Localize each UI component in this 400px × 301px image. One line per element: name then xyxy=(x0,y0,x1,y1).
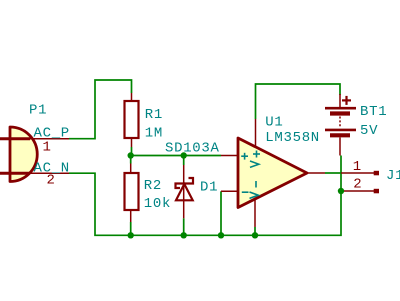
junction node R1/R2/SD103A xyxy=(128,152,134,158)
wire AC_P net: pin1 to R1 top xyxy=(69,80,132,139)
wire AC_N net: pin2 down to bottom bus xyxy=(69,156,341,236)
svg-text:LM358N: LM358N xyxy=(265,130,320,146)
BT1 cell2 short plate xyxy=(330,133,350,137)
U1 V+ power pin xyxy=(255,119,257,147)
svg-text:1M: 1M xyxy=(145,126,163,142)
svg-text:D1: D1 xyxy=(200,180,218,196)
diode D1 (Schottky) xyxy=(183,165,185,218)
wire D1 top stub xyxy=(183,158,185,165)
BT1 top pin xyxy=(339,94,341,107)
resistor R1 xyxy=(125,93,139,147)
wire R2 bottom stub xyxy=(130,222,132,235)
P1 prong pin AC_P xyxy=(0,137,30,140)
svg-text:AC_P: AC_P xyxy=(34,125,70,141)
svg-text:SD103A: SD103A xyxy=(165,141,220,157)
op-amp U1 body xyxy=(238,138,307,208)
BT1 cell1 long plate xyxy=(325,107,356,110)
U1 V- pin name (rotated) xyxy=(250,181,259,198)
wire D1 bottom stub xyxy=(183,218,185,235)
svg-text:R2: R2 xyxy=(144,178,162,194)
U1 V- power pin xyxy=(254,198,256,227)
svg-text:P1: P1 xyxy=(29,103,47,119)
wire V+ riser to battery xyxy=(256,84,341,119)
battery BT1 xyxy=(325,94,356,156)
svg-text:1: 1 xyxy=(353,159,362,175)
P1 pin 2 line xyxy=(30,172,69,174)
svg-text:5V: 5V xyxy=(360,123,378,139)
U1 V+ pin name (rotated) xyxy=(250,151,260,168)
svg-text:J1: J1 xyxy=(386,168,400,184)
U1 minus input marker xyxy=(242,191,249,193)
svg-text:U1: U1 xyxy=(265,114,283,130)
P1 prong pin AC_N xyxy=(0,172,30,175)
resistor R2 xyxy=(125,164,139,223)
svg-text:1: 1 xyxy=(43,140,52,156)
wire inverting input down xyxy=(220,191,222,235)
wire R2 top stub xyxy=(130,156,132,164)
BT1 bottom pin xyxy=(339,138,341,156)
BT1 dashed link xyxy=(339,117,341,129)
U1 plus input marker xyxy=(241,153,248,160)
P1 pin 1 line xyxy=(30,138,69,140)
BT1 plus sign xyxy=(342,99,351,101)
D1 pin vertical through symbol xyxy=(183,165,185,218)
U1 output pin xyxy=(308,172,325,174)
wire R1 bottom stub xyxy=(131,147,133,156)
BT1 cell2 long plate xyxy=(325,129,356,132)
connector J1 pin 2 xyxy=(344,190,374,192)
svg-text:2: 2 xyxy=(47,172,56,188)
BT1 cell1 short plate xyxy=(330,111,350,115)
svg-text:2: 2 xyxy=(353,176,362,192)
junction node V- bus xyxy=(252,232,258,238)
wire output to J1 xyxy=(325,172,341,174)
junction node D1 top xyxy=(181,152,187,158)
svg-text:10k: 10k xyxy=(144,196,171,212)
D1 cathode bar with schottky hooks xyxy=(176,178,194,188)
junction node J1 pin2 xyxy=(338,188,344,194)
junction node R2 bottom bus xyxy=(128,232,134,238)
svg-text:R1: R1 xyxy=(145,107,163,123)
wire V- bottom stub xyxy=(254,227,256,235)
wire SD103A net: middle horizontal xyxy=(131,155,221,157)
connector J1 pin 1 xyxy=(341,172,374,174)
connector P1 body xyxy=(10,127,37,182)
U1 non-inverting input pin xyxy=(221,155,238,157)
U1 inverting input pin xyxy=(221,190,238,192)
D1 anode triangle xyxy=(176,184,193,200)
junction node D1 bottom bus xyxy=(181,232,187,238)
junction node inverting input bus xyxy=(218,232,224,238)
svg-text:BT1: BT1 xyxy=(360,104,387,120)
